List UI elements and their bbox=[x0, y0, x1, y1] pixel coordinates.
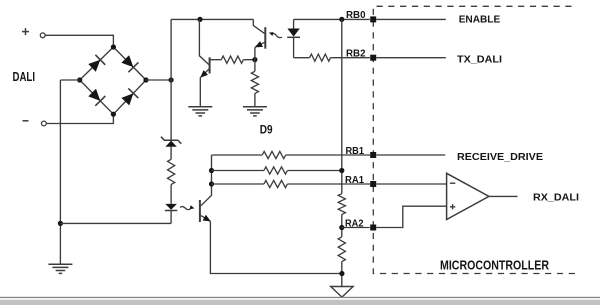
svg-text:D9: D9 bbox=[260, 122, 273, 136]
svg-text:RA1: RA1 bbox=[345, 175, 364, 186]
svg-text:ENABLE: ENABLE bbox=[459, 14, 501, 26]
svg-text:RA2: RA2 bbox=[345, 218, 364, 229]
svg-text:RECEIVE_DRIVE: RECEIVE_DRIVE bbox=[457, 151, 543, 163]
svg-text:TX_DALI: TX_DALI bbox=[457, 54, 502, 66]
svg-text:RB1: RB1 bbox=[346, 146, 365, 157]
svg-text:RB0: RB0 bbox=[346, 10, 366, 21]
svg-text:RX_DALI: RX_DALI bbox=[533, 192, 579, 204]
svg-text:RB2: RB2 bbox=[346, 49, 366, 60]
svg-text:DALI: DALI bbox=[13, 70, 36, 84]
svg-text:MICROCONTROLLER: MICROCONTROLLER bbox=[440, 257, 549, 272]
